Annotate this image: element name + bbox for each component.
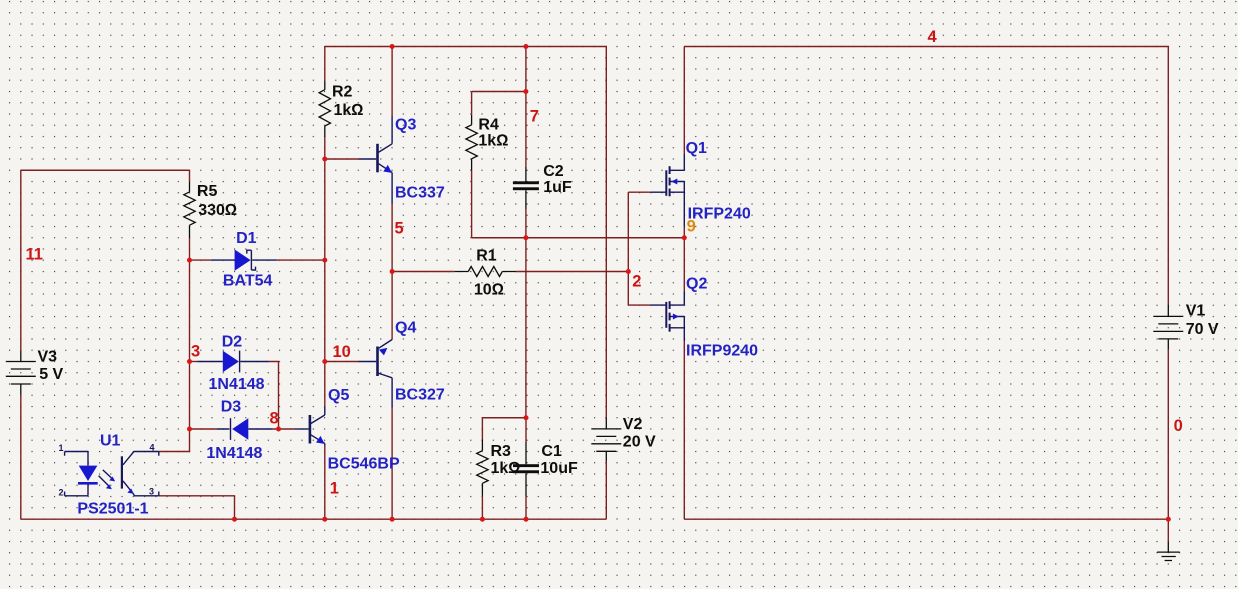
junction R4 top C2 column xyxy=(523,89,528,94)
junction net 8 D3 anode xyxy=(276,427,281,432)
wire R5 bottom to D1 node xyxy=(189,238,191,260)
wire D3 cathode lead xyxy=(190,428,217,430)
svg-text:U1: U1 xyxy=(100,432,121,449)
diode D2 1N4148 xyxy=(197,361,269,363)
mosfet Q2 IRFP9240 p-channel xyxy=(650,291,684,341)
svg-text:1N4148: 1N4148 xyxy=(209,376,265,393)
svg-text:2: 2 xyxy=(632,273,641,291)
Q3 base lead xyxy=(359,158,376,160)
junction R3 C1 top xyxy=(524,415,529,420)
svg-text:330Ω: 330Ω xyxy=(198,202,237,219)
svg-text:4: 4 xyxy=(150,443,155,453)
battery V2 20V xyxy=(591,418,621,462)
junction rail Q4 collector xyxy=(390,517,395,522)
wire R4 top lead xyxy=(471,92,473,115)
svg-text:R3: R3 xyxy=(491,443,512,460)
svg-text:7: 7 xyxy=(530,108,539,126)
svg-text:70 V: 70 V xyxy=(1186,321,1219,338)
svg-text:10uF: 10uF xyxy=(540,460,578,477)
wire net 11 top segment V3 to R5 xyxy=(21,169,190,171)
wire top rail from R2 to V2 xyxy=(325,47,607,418)
junction top rail Q3 collector xyxy=(390,44,395,49)
svg-text:R5: R5 xyxy=(197,183,218,200)
wire D1 cathode to R2 column xyxy=(277,259,325,261)
svg-text:1N4148: 1N4148 xyxy=(206,445,262,462)
svg-text:1kΩ: 1kΩ xyxy=(334,102,364,119)
wire R3 top lead xyxy=(481,418,483,440)
svg-text:C1: C1 xyxy=(541,443,562,460)
svg-text:D1: D1 xyxy=(236,230,257,247)
svg-text:V3: V3 xyxy=(38,349,58,366)
svg-text:IRFP9240: IRFP9240 xyxy=(686,343,758,360)
transistor Q3 BC337 npn xyxy=(378,116,392,204)
svg-text:BC327: BC327 xyxy=(395,386,445,403)
svg-text:Q5: Q5 xyxy=(328,387,349,404)
diode D3 1N4148 xyxy=(217,428,273,430)
wire bottom rail right net 0 xyxy=(684,518,1168,520)
wire R3 top to C1 node xyxy=(482,417,526,419)
svg-text:V1: V1 xyxy=(1186,303,1206,320)
svg-text:3: 3 xyxy=(149,486,154,496)
wire net 2 gate column xyxy=(627,192,629,305)
svg-text:D2: D2 xyxy=(222,334,243,351)
svg-text:4: 4 xyxy=(928,28,938,46)
junction rail C1 xyxy=(524,517,529,522)
svg-text:1: 1 xyxy=(330,480,339,498)
wire D1 anode lead xyxy=(190,259,212,261)
wire net 4 top rail to V1 xyxy=(684,47,1168,305)
wire R2 top lead from rail xyxy=(324,47,326,82)
wire R4 bottom lead to net 9 xyxy=(471,171,473,238)
wire C2 column top xyxy=(525,47,527,168)
wire D2 anode lead xyxy=(190,361,198,363)
junction net 9 C2 bottom xyxy=(523,235,528,240)
wire Q1 drain top xyxy=(683,47,685,155)
transistor Q4 BC327 pnp xyxy=(378,340,392,408)
wire D2 cathode corner to net 8 xyxy=(269,362,279,430)
svg-text:BAT54: BAT54 xyxy=(223,273,273,290)
svg-text:Q4: Q4 xyxy=(395,319,416,336)
wire net 3 to U1 pin4 xyxy=(159,429,190,452)
junction net 3 D3 xyxy=(187,427,192,432)
junction rail Q5 emitter xyxy=(322,517,327,522)
mosfet Q1 IRFP240 n-channel xyxy=(650,154,684,226)
capacitor C2 1uF xyxy=(525,167,527,209)
junction net 3 D2 xyxy=(187,359,192,364)
wire net 9 row to MOSFET midpoint xyxy=(472,237,685,239)
wire V2 minus to bottom rail xyxy=(605,462,607,519)
svg-text:9: 9 xyxy=(687,218,696,236)
optocoupler U1 PS2501-1 xyxy=(65,452,88,496)
wire V1 minus to node 0 xyxy=(1167,349,1169,519)
junction rail R3 xyxy=(480,517,485,522)
ground symbol xyxy=(1157,542,1180,561)
svg-text:BC337: BC337 xyxy=(395,185,445,202)
wire C2 bottom lead xyxy=(525,209,527,238)
svg-text:Q3: Q3 xyxy=(395,117,416,134)
svg-text:10: 10 xyxy=(333,343,351,361)
battery V1 70V xyxy=(1153,304,1183,349)
svg-text:20 V: 20 V xyxy=(623,433,656,450)
svg-text:11: 11 xyxy=(26,246,43,264)
wire Q1 gate lead xyxy=(628,191,650,193)
svg-text:R4: R4 xyxy=(478,116,499,133)
wire C2 column down to C1 node xyxy=(525,238,527,418)
resistor R5 330 xyxy=(184,182,195,238)
junction R1 right net 2 xyxy=(626,269,631,274)
svg-text:3: 3 xyxy=(191,343,200,361)
junction D1 anode R5 xyxy=(187,258,192,263)
junction Q3 base node xyxy=(322,157,327,162)
resistor R2 1k xyxy=(319,81,330,137)
svg-text:1kΩ: 1kΩ xyxy=(491,460,521,477)
battery V3 5V xyxy=(6,351,36,395)
wire R2 bottom through D1 node to Q5 collector xyxy=(324,137,326,406)
wire Q3 collector top lead xyxy=(391,47,393,117)
wire Q2 drain to net 9 xyxy=(683,238,685,291)
resistor R4 1k xyxy=(466,115,477,171)
resistor R3 1k xyxy=(477,440,488,496)
wire R1 left lead xyxy=(392,271,455,273)
svg-text:1kΩ: 1kΩ xyxy=(478,133,508,150)
svg-text:BC546BP: BC546BP xyxy=(328,456,400,473)
svg-text:5: 5 xyxy=(395,220,404,238)
wire R3 bottom to rail xyxy=(481,496,483,520)
junction net 10 Q5 collector xyxy=(322,359,327,364)
wire R4 top to C2 column xyxy=(472,91,526,93)
wire bottom ground rail left xyxy=(21,518,607,520)
wire Q1 source to net 9 xyxy=(683,226,685,237)
svg-text:1uF: 1uF xyxy=(543,179,572,196)
wire R1 right to net 2 xyxy=(516,271,629,273)
junction rail U1 pin3 xyxy=(232,517,237,522)
svg-text:10Ω: 10Ω xyxy=(474,281,504,298)
wire net 11 left vertical into V3 xyxy=(20,170,22,351)
svg-text:Q1: Q1 xyxy=(686,140,707,157)
wire Q4 collector to bottom rail xyxy=(391,408,393,520)
svg-text:IRFP240: IRFP240 xyxy=(688,206,751,223)
svg-text:C2: C2 xyxy=(543,163,564,180)
svg-text:2: 2 xyxy=(59,487,64,497)
svg-text:0: 0 xyxy=(1174,417,1183,435)
svg-text:D3: D3 xyxy=(221,399,242,416)
wire vertical net 3 column xyxy=(189,260,191,429)
svg-text:PS2501-1: PS2501-1 xyxy=(77,501,148,518)
wire Q2 gate lead xyxy=(628,304,650,306)
svg-text:8: 8 xyxy=(270,410,279,428)
svg-text:Q2: Q2 xyxy=(686,276,707,293)
svg-text:R1: R1 xyxy=(476,248,497,265)
junction rail V1 ground xyxy=(1166,517,1171,522)
transistor Q5 BC546BP npn xyxy=(311,406,325,445)
junction D1 cathode R2 column xyxy=(322,258,327,263)
wire Q5 emitter to bottom rail xyxy=(324,445,326,519)
wire D3 anode to Q5 base xyxy=(273,428,295,430)
diode D1 BAT54 schottky xyxy=(211,259,277,261)
wire V3 minus to bottom rail xyxy=(20,395,22,519)
junction net 9 MOSFET midpoint xyxy=(682,235,687,240)
resistor R1 10 xyxy=(455,267,516,277)
svg-text:R2: R2 xyxy=(332,83,353,100)
wire net 10 to Q4 base xyxy=(325,361,359,363)
capacitor C1 10uF xyxy=(525,442,527,496)
wire V1 bottom to ground xyxy=(1167,519,1169,542)
wire Q2 source to bottom rail xyxy=(683,341,685,519)
wire C1 top lead xyxy=(525,418,527,442)
svg-text:1: 1 xyxy=(59,443,64,453)
junction R1 left net 5 xyxy=(390,269,395,274)
wire Q3 emitter to Q4 emitter net 5 xyxy=(391,204,393,340)
svg-text:V2: V2 xyxy=(623,416,643,433)
wire Q3 base from R2 column xyxy=(325,158,359,160)
wire R5 top lead xyxy=(189,170,191,181)
junction top rail C2 xyxy=(523,44,528,49)
wire U1 pin3 to bottom rail xyxy=(159,496,235,519)
svg-text:5 V: 5 V xyxy=(39,366,63,383)
wire C1 bottom to rail xyxy=(525,496,527,519)
